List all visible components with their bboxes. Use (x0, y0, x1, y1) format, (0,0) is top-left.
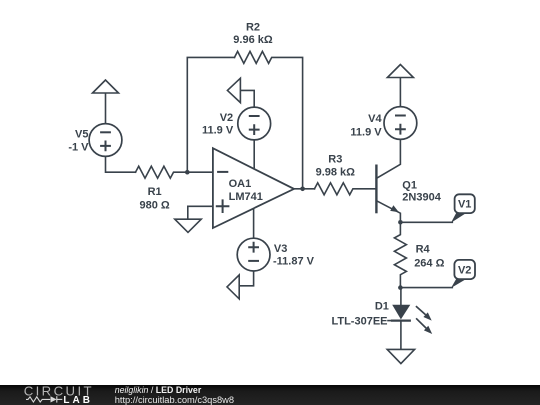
svg-text:264 Ω: 264 Ω (414, 257, 444, 269)
svg-text:11.9 V: 11.9 V (350, 126, 382, 138)
svg-text:R2: R2 (246, 22, 260, 34)
svg-text:V1: V1 (458, 199, 471, 211)
svg-text:R3: R3 (328, 153, 342, 165)
svg-text:R1: R1 (148, 186, 162, 198)
svg-text:R4: R4 (416, 243, 431, 255)
svg-text:V4: V4 (368, 113, 382, 125)
svg-text:-11.87 V: -11.87 V (273, 256, 315, 268)
svg-text:9.98 kΩ: 9.98 kΩ (316, 166, 356, 178)
svg-text:http://circuitlab.com/c3qs8w8: http://circuitlab.com/c3qs8w8 (115, 395, 234, 405)
svg-text:V3: V3 (274, 243, 287, 255)
svg-text:980 Ω: 980 Ω (139, 200, 169, 212)
svg-text:LAB: LAB (63, 395, 93, 405)
svg-text:V5: V5 (75, 128, 88, 140)
svg-text:-1 V: -1 V (68, 141, 89, 153)
svg-text:D1: D1 (375, 301, 389, 313)
svg-text:V2: V2 (220, 112, 233, 124)
svg-text:11.9 V: 11.9 V (202, 125, 234, 137)
svg-text:LM741: LM741 (229, 191, 263, 203)
svg-text:Q1: Q1 (402, 180, 417, 192)
svg-text:neilglikin / LED Driver: neilglikin / LED Driver (115, 385, 202, 395)
svg-text:OA1: OA1 (229, 178, 252, 190)
svg-text:9.96 kΩ: 9.96 kΩ (233, 34, 273, 46)
svg-text:2N3904: 2N3904 (402, 192, 441, 204)
svg-text:LTL-307EE: LTL-307EE (331, 315, 387, 327)
svg-text:V2: V2 (458, 264, 471, 276)
